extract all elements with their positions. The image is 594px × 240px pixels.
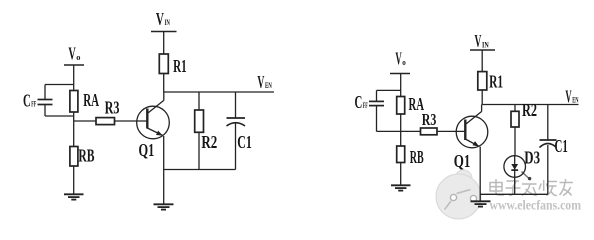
node Vo label (right): [395, 49, 405, 69]
wire CFF bottom return (right): [377, 106, 401, 132]
char 子: [506, 181, 521, 196]
wire RB to ground: [73, 166, 75, 194]
watermark logo hand: [436, 170, 481, 219]
label CFF (right): [355, 92, 368, 112]
ground under Q1 (left): [154, 204, 174, 209]
wire bottom rail (left): [164, 169, 236, 171]
wire bottom rail (right): [480, 193, 548, 195]
label RA: [83, 90, 99, 110]
label C1 (left): [237, 132, 252, 152]
svg-text:V: V: [565, 86, 571, 106]
capacitor CFF: [38, 100, 53, 105]
label R1 (right): [489, 72, 503, 92]
svg-text:C1: C1: [237, 132, 252, 152]
svg-text:R3: R3: [422, 110, 437, 129]
resistor R1 (left): [159, 54, 168, 74]
wire rail to C1 (right): [547, 105, 549, 141]
resistor RA: [70, 91, 78, 113]
char 友: [560, 179, 574, 196]
node VIN label (left): [156, 9, 170, 29]
wire rail to R2 (left): [198, 92, 200, 110]
svg-text:C: C: [355, 92, 363, 112]
label R1 (left): [173, 56, 187, 76]
wire collector vertical (right): [481, 105, 483, 112]
transistor Q1 (right): [456, 112, 488, 148]
label RB: [78, 146, 94, 166]
char 电: [490, 179, 504, 195]
watermark text 电子发烧友: [490, 172, 573, 196]
wire R2 to bottom rail (left): [198, 132, 200, 169]
char 发: [522, 172, 537, 196]
wire R1 to rail (left): [163, 74, 165, 93]
resistor R1 (right): [478, 72, 487, 90]
wire collector vertical (left): [163, 92, 165, 100]
resistor R2 (right): [511, 111, 519, 127]
wire Vo to RA: [73, 65, 75, 91]
resistor R2 (left): [195, 110, 204, 132]
diode D3: [504, 156, 526, 178]
node VEN label (right): [565, 86, 579, 106]
svg-text:Q1: Q1: [454, 151, 471, 171]
svg-text:www.elecfans.com: www.elecfans.com: [490, 199, 582, 214]
svg-text:RA: RA: [83, 90, 99, 110]
svg-text:RB: RB: [78, 146, 94, 166]
svg-text:V: V: [68, 44, 75, 64]
watermark text www.elecfans.com: [490, 199, 582, 214]
svg-text:D3: D3: [524, 147, 540, 167]
svg-text:C: C: [23, 91, 31, 111]
wire rail to C1 (left): [235, 92, 237, 118]
wire node to R3 (right): [401, 130, 421, 132]
char 烧: [539, 180, 557, 196]
label CFF: [23, 91, 36, 111]
svg-text:FF: FF: [31, 99, 36, 109]
resistor R3: [96, 118, 115, 125]
wire CFF top branch (right): [377, 90, 401, 101]
terminal VIN (right): [470, 49, 495, 51]
wire rail to R2 (right): [514, 105, 516, 112]
ground under RB: [64, 194, 84, 199]
svg-text:EN: EN: [265, 80, 272, 90]
wire R3 to Q1 base: [115, 120, 148, 122]
svg-text:RB: RB: [410, 147, 424, 167]
wire VIN to R1 (left): [163, 32, 165, 55]
svg-text:V: V: [156, 9, 164, 29]
svg-text:o: o: [402, 57, 406, 67]
ground under Q1 (right): [471, 201, 491, 206]
svg-text:IN: IN: [165, 17, 171, 27]
wire R3 to Q1 base (right): [437, 130, 465, 132]
resistor R3 (right): [421, 128, 438, 135]
wire Vo to RA (right): [400, 74, 402, 97]
wire emitter to ground (right): [479, 147, 481, 201]
wire R1 to rail (right): [481, 90, 483, 105]
wire R2 to D3 (right): [514, 127, 516, 156]
wire node to R3: [74, 120, 96, 122]
capacitor C1 (right): [540, 140, 557, 148]
wire CFF bottom return: [45, 105, 74, 117]
svg-text:R1: R1: [489, 72, 503, 92]
svg-text:V: V: [475, 31, 482, 51]
capacitor CFF (right): [369, 101, 384, 105]
resistor RB: [70, 147, 78, 167]
resistor RB (right): [397, 146, 405, 163]
terminal VIN (left): [151, 31, 177, 33]
wire RA to node (right): [400, 114, 402, 146]
wire D3 to bottom rail (right): [514, 177, 516, 194]
resistor RA (right): [397, 97, 405, 115]
svg-text:R3: R3: [105, 97, 120, 117]
label RA (right): [409, 94, 425, 114]
label Q1 (left): [139, 140, 155, 160]
svg-text:R2: R2: [522, 100, 537, 120]
svg-text:FF: FF: [363, 100, 368, 110]
wire RB to ground (right): [400, 163, 402, 186]
label R2 (right): [522, 100, 537, 120]
svg-text:o: o: [76, 52, 80, 62]
svg-text:C1: C1: [555, 136, 568, 156]
wire C1 to bottom rail (left): [235, 123, 237, 170]
terminal Vo: [64, 64, 84, 66]
svg-text:R2: R2: [201, 132, 217, 152]
ground under RB (right): [391, 185, 411, 190]
svg-text:EN: EN: [572, 95, 579, 105]
capacitor C1 (left): [227, 118, 246, 126]
wire emitter to ground (left): [163, 136, 165, 204]
wire RA to RB node: [73, 112, 75, 147]
node VIN label (right): [475, 31, 490, 51]
svg-text:V: V: [257, 72, 264, 92]
node VEN label (left): [257, 72, 272, 92]
transistor Q1 (left): [137, 100, 170, 138]
terminal Vo (right): [390, 73, 410, 75]
label R2 (left): [201, 132, 217, 152]
wire C1 to bottom rail (right): [547, 145, 549, 194]
label C1 (right): [555, 136, 568, 156]
label RB (right): [410, 147, 424, 167]
wire top rail to VEN (left): [164, 91, 274, 93]
label R3: [105, 97, 120, 117]
svg-text:IN: IN: [482, 39, 489, 49]
wire VIN to R1 (right): [481, 50, 483, 72]
svg-text:Q1: Q1: [139, 140, 155, 160]
label D3: [524, 147, 540, 167]
wire top rail to VEN (right): [482, 104, 578, 106]
node Vo label: [68, 44, 80, 64]
label R3 (right): [422, 110, 437, 129]
svg-text:R1: R1: [173, 56, 187, 76]
label Q1 (right): [454, 151, 471, 171]
wire CFF top branch: [45, 85, 74, 100]
svg-text:V: V: [395, 49, 401, 69]
